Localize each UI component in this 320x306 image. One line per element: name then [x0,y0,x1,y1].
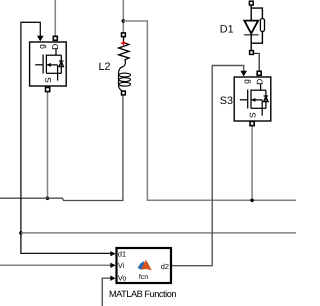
wire: D1 cathode to S3 drain [254,53,260,71]
wire: top feed down to L2 top port [122,0,124,33]
svg-text:D1: D1 [220,23,234,35]
port arrow: Vi input [110,263,115,268]
port: L2 bottom square [122,91,126,95]
diode triangle [244,21,258,34]
port: S2 drain square [53,36,57,40]
coil left spine [119,67,124,92]
mosfet S3 [234,77,271,121]
port: D1 cathode square [250,51,254,55]
wire: branch from L2 top node right and down to lower bus, to right edge [123,21,296,200]
inductor L2 (series RL branch) [119,33,131,95]
wire: d2 output up to S3 gate [172,66,244,266]
port: S2 source square [46,87,50,91]
svg-text:L2: L2 [98,61,110,73]
lead from zigzag into coil spine [123,60,125,67]
wire: gate/d1 net from PWM node to S2 gate and d1 input [21,22,111,253]
svg-text:d2: d2 [161,262,169,271]
wire: left bus from left edge with jog, up to L2 bottom port [0,95,123,201]
matlab logo [138,260,152,271]
port: S3 drain square [257,71,261,75]
junction: S3 source on bus [250,199,254,203]
diode cathode bar [244,34,259,36]
wire: S3 source port down to bus [251,126,253,201]
diode D1 with snubber [244,1,265,54]
port: S3 gate input arrow [240,71,247,77]
svg-text:d1: d1 [118,249,126,258]
svg-text:Vo: Vo [118,274,127,283]
polarity mark + (red) [121,41,126,45]
wire: snubber branch bottom [251,32,262,44]
wire: anode lead [250,5,252,21]
coil loops [119,73,131,86]
junction: S2 source on left bus [46,197,50,201]
MATLAB Function block [110,248,171,283]
port: L2 top square [122,33,126,37]
port arrow: Vo input [110,276,115,281]
mosfet S2 (unlabeled left switch) [30,42,67,86]
wire: top feed down to S2 drain port [54,0,56,36]
junction: d1 net on PWM bus [19,231,23,235]
wire: S2 source port down to left bus [47,92,49,198]
port arrow: d1 input [110,251,115,256]
wire: snubber branch top [251,8,262,18]
port: S3 source square [250,121,254,125]
port: S2 gate input arrow [37,36,44,42]
svg-text:S3: S3 [220,95,233,107]
junction: L2 top node [122,19,126,23]
wire: cathode lead [250,34,252,51]
wire: Vi input from left edge [0,264,111,266]
svg-text:MATLAB Function: MATLAB Function [109,289,176,299]
resistor zigzag [119,37,129,60]
svg-text:Vi: Vi [118,261,125,270]
wire: PWM bus to right edge [21,232,296,234]
wire: Vo input from bottom edge [102,278,111,306]
port: D1 anode square [249,1,253,5]
svg-text:fcn: fcn [139,273,148,281]
snubber resistor body [260,19,264,32]
